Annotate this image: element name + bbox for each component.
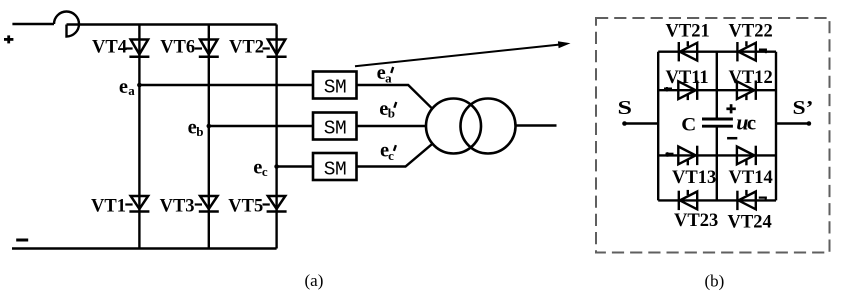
svg-text:S’: S’ bbox=[793, 97, 814, 119]
svg-text:VT22: VT22 bbox=[729, 21, 773, 41]
SM block 2 bbox=[313, 113, 357, 140]
svg-text:VT24: VT24 bbox=[728, 213, 772, 233]
svg-text:SM: SM bbox=[324, 159, 346, 181]
wire bottom bus bbox=[12, 247, 277, 249]
wire eb to SM2 bbox=[209, 125, 313, 127]
SM block 3 bbox=[313, 153, 357, 180]
thyristor VT1 bbox=[125, 196, 149, 212]
source loop symbol bbox=[54, 11, 79, 36]
svg-text:VT1: VT1 bbox=[91, 196, 126, 216]
svg-text:SM: SM bbox=[324, 117, 346, 139]
wire top bus bbox=[67, 23, 277, 25]
wire ec' output bbox=[357, 144, 432, 166]
thyristor VT23 bbox=[679, 190, 697, 210]
svg-text:(b): (b) bbox=[705, 272, 725, 291]
wire column c bbox=[275, 25, 277, 249]
bridge left rail bbox=[657, 52, 659, 201]
wire ec to SM3 bbox=[277, 165, 313, 167]
svg-text:VT2: VT2 bbox=[229, 38, 264, 58]
capacitor C bbox=[702, 119, 733, 126]
thyristor VT14 bbox=[737, 146, 756, 166]
arrow to SM detail bbox=[355, 41, 571, 66]
bridge center rail upper bbox=[716, 52, 718, 118]
bridge row3 bus bbox=[658, 154, 776, 156]
terminal S bbox=[622, 121, 627, 126]
svg-text:VT23: VT23 bbox=[674, 211, 718, 231]
svg-text:VT11: VT11 bbox=[666, 68, 709, 88]
minus sign uc bbox=[727, 137, 737, 140]
svg-text:S: S bbox=[618, 97, 633, 119]
svg-text:b: b bbox=[388, 106, 395, 121]
svg-text:b: b bbox=[196, 124, 203, 139]
thyristor VT12 bbox=[737, 81, 756, 101]
dashed SM detail box bbox=[596, 18, 830, 253]
wire bridge to S' bbox=[776, 122, 809, 124]
plus sign uc bbox=[726, 104, 735, 113]
thyristor VT4 bbox=[125, 40, 149, 57]
svg-text:c: c bbox=[262, 164, 268, 179]
bridge bottom bus bbox=[658, 199, 776, 201]
wire S to bridge bbox=[625, 122, 659, 124]
bridge top bus bbox=[658, 51, 776, 53]
SM block 1 bbox=[313, 72, 357, 99]
thyristor VT6 bbox=[195, 40, 219, 57]
node ec bbox=[274, 164, 279, 169]
node ea bbox=[137, 83, 142, 88]
svg-text:SM: SM bbox=[324, 76, 346, 98]
thyristor VT24 bbox=[737, 190, 766, 210]
svg-text:VT12: VT12 bbox=[729, 68, 773, 88]
svg-text:C: C bbox=[681, 114, 696, 135]
node eb bbox=[207, 124, 212, 129]
svg-text:c: c bbox=[747, 110, 756, 134]
wire eb' output bbox=[357, 125, 426, 127]
bridge right rail bbox=[775, 52, 777, 201]
wire DC+ lead bbox=[12, 23, 54, 25]
svg-text:VT14: VT14 bbox=[729, 168, 773, 188]
thyristor VT13 bbox=[666, 146, 698, 166]
thyristor VT5 bbox=[263, 196, 287, 212]
+ terminal bbox=[4, 35, 13, 43]
svg-text:VT21: VT21 bbox=[666, 21, 710, 41]
wire ea to SM1 bbox=[139, 84, 313, 86]
wire column a bbox=[138, 25, 140, 249]
thyristor VT11 bbox=[664, 81, 697, 101]
thyristor VT3 bbox=[195, 196, 219, 212]
svg-text:e: e bbox=[119, 76, 128, 98]
svg-text:VT6: VT6 bbox=[160, 38, 195, 58]
transformer secondary circle bbox=[461, 99, 516, 154]
bridge row2 bus bbox=[658, 89, 776, 91]
thyristor VT2 bbox=[263, 40, 287, 57]
svg-text:(a): (a) bbox=[305, 271, 324, 290]
wire transformer output bbox=[516, 124, 557, 126]
svg-text:VT3: VT3 bbox=[160, 196, 195, 216]
wire column b bbox=[208, 25, 210, 249]
svg-text:VT5: VT5 bbox=[228, 196, 263, 216]
svg-text:a: a bbox=[128, 83, 135, 98]
thyristor VT21 bbox=[679, 41, 697, 61]
bridge center rail lower bbox=[716, 128, 718, 201]
svg-text:VT13: VT13 bbox=[672, 168, 716, 188]
svg-text:VT4: VT4 bbox=[92, 38, 127, 58]
thyristor VT22 bbox=[737, 41, 766, 61]
transformer primary circle bbox=[426, 99, 481, 154]
- terminal bbox=[16, 239, 28, 242]
terminal S' bbox=[807, 121, 812, 126]
wire ea' output bbox=[357, 85, 432, 108]
